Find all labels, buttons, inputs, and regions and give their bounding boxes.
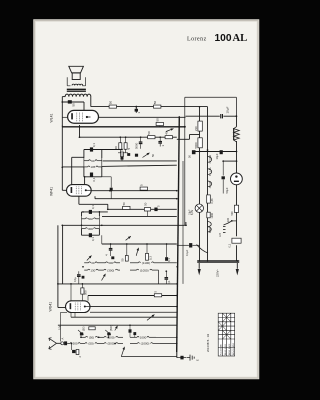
wire rail bottom corner to earth bbox=[176, 352, 178, 358]
svg-text:10μF: 10μF bbox=[189, 209, 192, 215]
wire AF left vertical bbox=[83, 150, 85, 159]
antenna bbox=[49, 338, 61, 349]
mains plug pin right bbox=[236, 263, 238, 269]
svg-text:WL41: WL41 bbox=[50, 114, 54, 123]
trimmer cap 1 bbox=[80, 332, 82, 337]
svg-text:50: 50 bbox=[72, 103, 76, 107]
schematic page bbox=[35, 21, 259, 379]
page edge shading bbox=[35, 21, 259, 379]
resistor grid leak V3 bbox=[81, 288, 84, 294]
parts table bbox=[218, 313, 235, 356]
tube V2 grids bbox=[76, 186, 81, 194]
wire HT rail x236.5 bbox=[236, 116, 238, 127]
wire choke line y160.9 bbox=[103, 160, 177, 162]
resistor 5000 bbox=[198, 138, 202, 148]
wire rail x183 bbox=[182, 161, 184, 284]
resistor 500 on rail bbox=[234, 205, 238, 212]
wire IF2 verticals bbox=[81, 212, 83, 216]
wire grid bus thick bbox=[62, 126, 185, 128]
resistor small y328 bbox=[89, 327, 95, 330]
padder cap mid 2 bbox=[133, 332, 136, 335]
RF coil 1000 upper bbox=[130, 336, 137, 338]
voice coil bbox=[72, 84, 83, 85]
svg-text:5000: 5000 bbox=[135, 142, 139, 149]
svg-text:50: 50 bbox=[143, 202, 147, 206]
wire switch branch step bbox=[177, 138, 190, 140]
resistor 50 bbox=[109, 105, 116, 108]
wire line y209 bbox=[108, 208, 177, 210]
capacitor screen bypass bbox=[62, 101, 84, 103]
RF coil 1000 lower bbox=[130, 343, 137, 345]
antenna terminal circle bbox=[61, 342, 64, 345]
capacitor 0.1 IF2 bottom bbox=[89, 233, 92, 237]
resistor 2k bbox=[76, 350, 79, 355]
svg-text:(500): (500) bbox=[110, 325, 113, 331]
wire AVC line left bbox=[62, 166, 84, 168]
svg-text:50: 50 bbox=[147, 131, 151, 135]
svg-text:30: 30 bbox=[91, 261, 95, 265]
svg-text:40: 40 bbox=[165, 131, 169, 135]
wire screen line V2 bbox=[95, 198, 177, 200]
tube V3 cathode bbox=[70, 303, 72, 309]
svg-text:(1000): (1000) bbox=[141, 342, 150, 346]
capacitor 0.1u left bbox=[78, 271, 80, 274]
speaker frame bracket bbox=[67, 77, 85, 86]
wire AGC y317 bbox=[71, 316, 177, 318]
wire grid drop to V2 bbox=[84, 177, 86, 185]
wire cathode line V1 bbox=[79, 125, 81, 137]
mains dropper bar bbox=[233, 128, 235, 140]
capacitor 0.1 IF2 top bbox=[89, 210, 92, 214]
svg-text:50: 50 bbox=[122, 202, 126, 206]
wire left rail lower bbox=[62, 225, 64, 284]
capacitor 50uF bbox=[222, 176, 225, 179]
heater winding 4 bbox=[208, 222, 212, 232]
svg-text:500: 500 bbox=[231, 211, 234, 216]
svg-text:50: 50 bbox=[121, 258, 125, 262]
wire bias resistor drop bbox=[70, 344, 72, 351]
antenna coil upper 50 bbox=[84, 336, 85, 338]
resistor cathode bias bbox=[148, 136, 155, 139]
wire anode drop to V1 bbox=[83, 102, 85, 111]
capacitor 5000 blob bbox=[220, 150, 223, 154]
svg-text:4V 2A: 4V 2A bbox=[209, 181, 212, 188]
junction dots bbox=[61, 166, 63, 168]
capacitor 1 bbox=[159, 137, 161, 141]
svg-text:0,33: 0,33 bbox=[211, 198, 214, 203]
svg-text:0,1: 0,1 bbox=[91, 205, 95, 209]
resistor anode load bbox=[140, 187, 147, 190]
svg-text:50: 50 bbox=[153, 101, 157, 105]
wire AF chain top bbox=[84, 149, 122, 151]
wire mains coupling line bbox=[177, 244, 189, 246]
tube V3 grids bbox=[75, 303, 80, 311]
oscillator coil row 1 bbox=[84, 262, 88, 264]
switch tone bbox=[143, 153, 150, 158]
wire line y244 bbox=[102, 243, 177, 245]
svg-text:WF41: WF41 bbox=[50, 187, 54, 196]
resistor 50 on grid bus bbox=[156, 122, 163, 125]
capacitor 0.1 top bbox=[90, 147, 93, 151]
output tube WL41 bbox=[68, 110, 99, 123]
IF transformer 2 winding 1 bbox=[82, 218, 86, 220]
tube V1 grids bbox=[77, 113, 83, 122]
svg-text:0,1: 0,1 bbox=[229, 243, 232, 247]
wire AF bottom bbox=[83, 167, 85, 177]
resistor small heater bbox=[207, 212, 210, 218]
svg-text:(50): (50) bbox=[88, 342, 93, 346]
wire IF2 bottom bbox=[81, 229, 83, 236]
heater winding 2 bbox=[208, 169, 212, 175]
svg-text:(50): (50) bbox=[83, 326, 86, 331]
wire rail x199.5 bbox=[199, 108, 201, 262]
svg-text:500: 500 bbox=[108, 261, 113, 265]
switch arm bandswitch bbox=[126, 236, 131, 240]
svg-text:50μF: 50μF bbox=[225, 187, 229, 193]
capacitor mains coupling bbox=[189, 243, 192, 247]
svg-text:4V 1,1A: 4V 1,1A bbox=[209, 167, 212, 176]
svg-text:50: 50 bbox=[109, 101, 113, 105]
capacitor tone blob bbox=[135, 154, 138, 157]
resistor tone 50 bbox=[119, 143, 122, 150]
capacitor 50 blob left bbox=[192, 150, 196, 154]
switch osc bbox=[136, 248, 138, 256]
wire left rail x57.9 bbox=[57, 225, 59, 307]
loudspeaker LS bbox=[69, 66, 84, 73]
switch arm band bbox=[102, 274, 106, 281]
wire AF right vertical bbox=[101, 150, 103, 159]
tube V2 anode bbox=[85, 189, 87, 191]
svg-text:1000: 1000 bbox=[140, 335, 147, 339]
interstage transformer winding 1 bbox=[84, 160, 89, 162]
padder cap mid bbox=[129, 329, 132, 332]
svg-text:0,1: 0,1 bbox=[92, 143, 96, 147]
resistor 210 bbox=[198, 121, 202, 131]
svg-text:1000: 1000 bbox=[211, 213, 214, 219]
svg-text:105: 105 bbox=[90, 165, 95, 169]
svg-text:E: E bbox=[196, 359, 200, 361]
wire corner line A down x207.5 bbox=[207, 107, 209, 261]
wire V3 grid left bbox=[70, 284, 72, 297]
oscillator coil row 2 bbox=[84, 269, 87, 271]
resistor 50 osc bbox=[125, 256, 128, 262]
resistor tone 50b bbox=[124, 143, 127, 150]
output transformer core bbox=[67, 88, 86, 90]
junction blob bbox=[82, 276, 85, 279]
mains dropper zigzag bbox=[234, 127, 240, 142]
wire tone verticals bbox=[119, 137, 121, 143]
earth terminal bbox=[187, 355, 195, 361]
resistor column small bbox=[121, 152, 124, 157]
wire left stub bbox=[72, 156, 84, 158]
svg-text:210: 210 bbox=[194, 126, 198, 131]
switch contact feedback bbox=[166, 129, 174, 132]
trimmer cap 2 bbox=[107, 332, 109, 337]
resistor 50 on 209 bbox=[123, 206, 130, 209]
svg-text:(1050): (1050) bbox=[140, 268, 149, 272]
svg-text:0,1: 0,1 bbox=[167, 258, 171, 262]
wire V3 anode line bbox=[90, 306, 177, 308]
svg-text:5000: 5000 bbox=[194, 142, 198, 149]
potentiometer arrow regen bbox=[87, 256, 92, 261]
wire coupling to anode cap bbox=[102, 176, 111, 178]
capacitor anode bypass bbox=[110, 188, 113, 191]
svg-text:130: 130 bbox=[90, 268, 95, 272]
svg-text:220V~: 220V~ bbox=[216, 268, 220, 277]
output transformer primary winding bbox=[65, 94, 91, 97]
svg-text:(1100): (1100) bbox=[142, 261, 150, 265]
wire ground bus y283.9 bbox=[58, 283, 177, 285]
svg-text:0,1: 0,1 bbox=[91, 237, 95, 241]
IF transformer 2 winding 2 bbox=[82, 228, 86, 230]
wire V3 screen line y295.5 bbox=[88, 295, 177, 297]
wire rail x184.8 bbox=[184, 97, 186, 225]
antenna coil upper 500 bbox=[99, 336, 104, 338]
resistor 0.3 bbox=[146, 253, 149, 260]
svg-text:0,1: 0,1 bbox=[92, 177, 96, 181]
wire bottom row y356.6 bbox=[121, 356, 177, 358]
resistor bbox=[165, 136, 172, 139]
svg-text:2014 6876 · 1/2: 2014 6876 · 1/2 bbox=[206, 333, 210, 352]
wire y325 bbox=[58, 324, 177, 326]
wire AVC line right bbox=[102, 165, 177, 166]
svg-text:6,3V: 6,3V bbox=[209, 228, 212, 233]
RF tube WG41 bbox=[66, 301, 91, 313]
wire V3 line y312.5 bbox=[90, 311, 177, 313]
antenna coil 500b bbox=[99, 343, 104, 345]
tube V1 cathode bbox=[71, 113, 73, 119]
capacitor earth blob bbox=[180, 356, 183, 360]
tube V3 anode bbox=[84, 306, 86, 308]
wire HT feed with 10uF bbox=[186, 115, 220, 117]
wire cap column x223.2 bbox=[222, 161, 224, 175]
wire anode line V1 bbox=[99, 116, 186, 118]
wire 2nd IF top bbox=[82, 211, 108, 213]
trimmer arrow mid bbox=[115, 326, 118, 331]
wire left rail x62.3 to V2 bbox=[61, 126, 63, 191]
wire screen supply line bbox=[91, 106, 208, 108]
heater winding 3 bbox=[208, 181, 212, 187]
capacitor 5000 bbox=[140, 137, 142, 141]
svg-text:50: 50 bbox=[114, 146, 118, 150]
tube V1 anode bbox=[86, 116, 88, 118]
wire V2 anode line bbox=[91, 190, 177, 192]
wire V2 cathode down bbox=[78, 196, 80, 204]
resistor 5k on 295 bbox=[154, 294, 161, 297]
resistor ballast bbox=[207, 195, 211, 203]
resistor 50 bbox=[154, 105, 161, 108]
capacitor column blob bbox=[121, 157, 124, 160]
svg-text:127: 127 bbox=[219, 232, 222, 237]
wire power section top bbox=[185, 96, 237, 98]
tube V2 cathode bbox=[71, 187, 73, 193]
trimmer capacitor on 209 bbox=[144, 208, 150, 211]
wire row y337.3 bbox=[81, 336, 84, 338]
mains plug pin left bbox=[198, 263, 200, 269]
capacitor blob row bbox=[127, 153, 130, 156]
mains rectifier bbox=[231, 173, 243, 185]
svg-text:90: 90 bbox=[91, 159, 95, 163]
capacitor decoupling bbox=[135, 109, 138, 112]
heater winding 1 bbox=[208, 157, 212, 163]
detector tube WF41 bbox=[67, 185, 92, 197]
svg-text:AL: AL bbox=[233, 33, 248, 44]
svg-text:Lorenz: Lorenz bbox=[187, 36, 207, 42]
svg-text:300: 300 bbox=[88, 227, 93, 231]
mains cord bar bbox=[197, 260, 239, 262]
svg-text:220: 220 bbox=[227, 217, 230, 222]
capacitor padder column bbox=[110, 244, 112, 248]
capacitor 0.1 osc bbox=[165, 257, 168, 261]
svg-text:10μF: 10μF bbox=[226, 106, 230, 113]
wire main bus y225 thick bbox=[62, 224, 186, 226]
svg-text:(300): (300) bbox=[107, 268, 114, 272]
svg-text:100: 100 bbox=[215, 33, 232, 44]
svg-text:10μF: 10μF bbox=[215, 153, 219, 159]
svg-text:50: 50 bbox=[156, 118, 160, 122]
wire V3 left bottom to antenna bbox=[60, 312, 67, 314]
antenna coil 50 bbox=[83, 343, 85, 345]
capacitor blob on 209 bbox=[154, 208, 157, 212]
capacitor 0.1 bottom bbox=[90, 173, 93, 177]
wire y225 to edge corner bbox=[185, 222, 187, 225]
capacitor antenna blob bbox=[64, 341, 67, 345]
wire mid bus y216 bbox=[102, 215, 177, 217]
capacitor right 0.1 bbox=[165, 271, 167, 277]
mains switch arc bbox=[197, 245, 209, 254]
resistor 0.1 on rail bbox=[232, 238, 241, 243]
svg-text:4V 0,5A: 4V 0,5A bbox=[209, 155, 212, 164]
svg-text:0,1: 0,1 bbox=[167, 280, 171, 284]
scale lamp bbox=[195, 204, 203, 212]
wire left rail to output tube bbox=[61, 97, 63, 127]
voltage selector contacts bbox=[224, 221, 232, 225]
svg-text:0,1μF: 0,1μF bbox=[186, 249, 189, 256]
wire hline y161.1 bbox=[223, 160, 236, 162]
svg-text:(500): (500) bbox=[107, 342, 114, 346]
wire thick rail x177-179 bbox=[177, 116, 180, 352]
svg-text:0,1μ: 0,1μ bbox=[73, 276, 77, 282]
interstage transformer winding 2 bbox=[84, 166, 88, 168]
svg-text:A: A bbox=[61, 338, 65, 340]
potentiometer arrow on 317 bbox=[147, 315, 155, 321]
svg-text:500: 500 bbox=[84, 290, 88, 295]
svg-text:500: 500 bbox=[73, 342, 78, 346]
wire row2 corner down bbox=[158, 270, 160, 284]
svg-text:50: 50 bbox=[151, 153, 155, 157]
svg-text:(50): (50) bbox=[89, 335, 94, 339]
antenna coil 500 bbox=[67, 343, 70, 345]
svg-text:WG41: WG41 bbox=[49, 302, 53, 312]
svg-text:0,3: 0,3 bbox=[148, 256, 152, 260]
wire hline y151.5 bbox=[196, 151, 237, 153]
switch arm bottom bbox=[122, 347, 125, 356]
svg-text:502: 502 bbox=[88, 217, 93, 221]
